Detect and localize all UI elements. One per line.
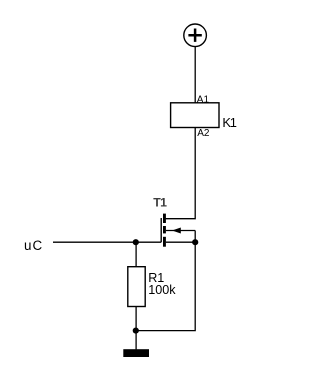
transistor T1 (N-MOSFET) — [161, 214, 195, 247]
drain channel bar — [163, 214, 166, 223]
svg-text:A2: A2 — [197, 128, 210, 139]
resistor R1 — [128, 267, 145, 307]
power supply +V symbol — [184, 24, 207, 47]
body-to-source wire — [194, 231, 196, 243]
wire ground node to ground symbol — [135, 331, 137, 350]
ground — [123, 349, 149, 357]
svg-text:A1: A1 — [197, 94, 210, 105]
body channel bar — [163, 226, 166, 233]
wire uC to gate — [53, 241, 161, 243]
relay K1 coil — [171, 103, 219, 128]
junction dot uC/R1 — [133, 239, 139, 245]
source wire — [166, 241, 195, 243]
source channel bar — [163, 237, 166, 247]
wire supply to relay A1 — [194, 47, 196, 103]
svg-text:K1: K1 — [222, 115, 236, 130]
bulk arrow — [172, 228, 181, 234]
junction dot ground node — [133, 328, 139, 334]
wire source node down and to ground node — [136, 242, 195, 330]
wire R1 bottom to ground node — [135, 307, 137, 331]
wire junction to R1 top — [135, 242, 137, 267]
wire relay A2 to drain — [166, 128, 196, 219]
junction dot source node — [192, 239, 198, 245]
body wire with arrow — [166, 230, 195, 232]
svg-text:uC: uC — [24, 238, 43, 253]
svg-text:T1: T1 — [153, 196, 167, 210]
svg-text:100k: 100k — [148, 283, 176, 297]
gate line — [160, 218, 162, 242]
